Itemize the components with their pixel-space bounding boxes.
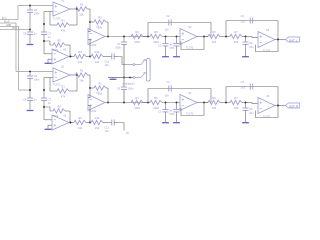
svg-text:100k: 100k [53, 49, 59, 52]
svg-text:10k: 10k [78, 126, 83, 130]
svg-text:IN_R: IN_R [4, 21, 10, 23]
svg-text:R2: R2 [98, 82, 102, 86]
svg-text:10n: 10n [249, 45, 254, 49]
svg-text:C7: C7 [48, 32, 52, 36]
svg-text:10u: 10u [105, 64, 110, 67]
svg-text:VCC: VCC [12, 28, 17, 30]
svg-text:100k: 100k [53, 115, 59, 118]
svg-text:R10: R10 [95, 116, 100, 120]
svg-text:C3: C3 [158, 43, 162, 47]
svg-text:47k: 47k [61, 28, 66, 32]
svg-text:TL072: TL072 [186, 45, 194, 49]
svg-text:U3: U3 [188, 91, 192, 95]
svg-text:U3: U3 [188, 25, 192, 29]
svg-text:R1: R1 [80, 3, 84, 7]
svg-text:10k: 10k [78, 60, 83, 64]
svg-text:U4: U4 [266, 28, 270, 32]
svg-text:332: 332 [234, 40, 239, 44]
svg-text:R6: R6 [212, 30, 216, 34]
svg-text:R2: R2 [98, 16, 102, 20]
svg-text:10k: 10k [95, 60, 100, 64]
svg-text:C3: C3 [158, 109, 162, 113]
svg-text:4n7: 4n7 [169, 108, 174, 112]
svg-text:C5: C5 [249, 41, 253, 45]
svg-text:R9: R9 [78, 116, 82, 120]
svg-text:OUT_R: OUT_R [289, 104, 298, 108]
svg-text:OUT_L: OUT_L [289, 38, 298, 42]
svg-text:100n: 100n [115, 46, 121, 50]
svg-text:IN_L: IN_L [2, 18, 8, 20]
svg-text:TL072: TL072 [186, 111, 194, 115]
svg-text:X7R: X7R [169, 112, 174, 116]
svg-text:C8: C8 [23, 32, 27, 36]
svg-text:C1: C1 [117, 42, 121, 46]
svg-text:U4: U4 [266, 94, 270, 98]
svg-text:TL072: TL072 [53, 83, 61, 87]
svg-text:R4: R4 [135, 30, 139, 34]
svg-text:audiojack2: audiojack2 [123, 83, 136, 86]
svg-text:GND: GND [6, 25, 11, 27]
svg-text:C6: C6 [117, 87, 121, 91]
svg-text:332: 332 [212, 106, 217, 110]
svg-text:U2: U2 [96, 91, 100, 95]
svg-text:C7: C7 [48, 98, 52, 102]
svg-text:16k2: 16k2 [153, 40, 159, 44]
svg-text:R8: R8 [57, 105, 61, 109]
svg-text:100n: 100n [128, 87, 134, 91]
svg-text:R5: R5 [154, 30, 158, 34]
svg-text:47k: 47k [61, 94, 66, 98]
svg-text:R10: R10 [95, 50, 100, 54]
svg-text:332: 332 [234, 106, 239, 110]
svg-text:U2: U2 [96, 25, 100, 29]
svg-text:C9: C9 [34, 74, 38, 78]
svg-text:10k: 10k [79, 12, 84, 16]
svg-text:C8: C8 [23, 98, 27, 102]
svg-text:2n2: 2n2 [241, 86, 246, 90]
svg-text:R9: R9 [78, 50, 82, 54]
svg-text:16k2: 16k2 [134, 40, 140, 44]
svg-text:R4: R4 [135, 96, 139, 100]
svg-text:R3: R3 [61, 19, 65, 23]
svg-text:2n2: 2n2 [241, 20, 246, 24]
svg-text:C5: C5 [249, 107, 253, 111]
svg-text:R7: R7 [234, 30, 238, 34]
svg-text:16k2: 16k2 [153, 106, 159, 110]
svg-text:R7: R7 [234, 96, 238, 100]
svg-text:R5: R5 [154, 96, 158, 100]
svg-text:TL072: TL072 [53, 17, 61, 21]
svg-text:U1: U1 [61, 0, 65, 2]
svg-text:4n7: 4n7 [169, 42, 174, 46]
svg-text:R8: R8 [57, 39, 61, 43]
svg-text:C9: C9 [34, 8, 38, 12]
svg-text:C4: C4 [241, 80, 245, 84]
svg-text:R6: R6 [212, 96, 216, 100]
svg-text:100n: 100n [34, 77, 40, 81]
svg-text:C4: C4 [241, 14, 245, 18]
svg-text:R3: R3 [61, 85, 65, 89]
svg-text:X7R: X7R [169, 46, 174, 50]
svg-text:10u: 10u [105, 130, 110, 133]
svg-text:10n: 10n [249, 111, 254, 115]
svg-text:U1: U1 [61, 64, 65, 68]
svg-text:10k: 10k [79, 78, 84, 82]
svg-text:16k2: 16k2 [134, 106, 140, 110]
svg-text:R1: R1 [80, 69, 84, 73]
svg-text:10n: 10n [165, 29, 170, 32]
svg-text:100n: 100n [34, 11, 40, 15]
svg-text:332: 332 [212, 40, 217, 44]
svg-text:10n: 10n [165, 95, 170, 98]
svg-text:10k: 10k [95, 126, 100, 130]
